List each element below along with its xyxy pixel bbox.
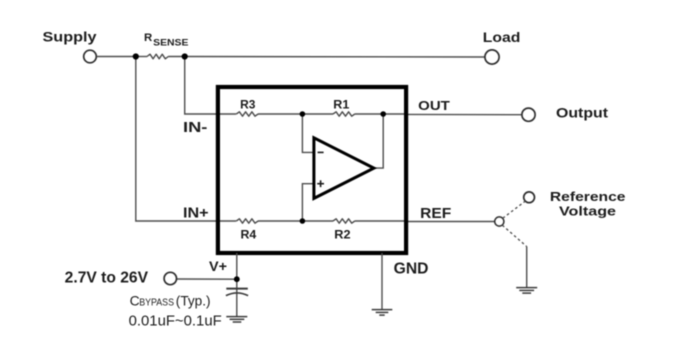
svg-text:BYPASS: BYPASS [139, 297, 174, 308]
junction: output node [380, 111, 386, 117]
svg-text:Supply: Supply [43, 30, 97, 45]
value label CBYPASS (Typ.) [130, 292, 211, 308]
wire: REF pin to switch common [407, 221, 495, 223]
wire: supply node to RSENSE [136, 56, 147, 58]
wire: R2 to REF pin [355, 220, 407, 222]
terminal: Output [522, 108, 535, 121]
wire: dashed switch throw to ground branch [502, 225, 526, 246]
label "Reference Voltage" [550, 189, 626, 218]
svg-text:R3: R3 [240, 98, 255, 112]
svg-text:(Typ.): (Typ.) [176, 293, 211, 308]
wire: R3 to inverting node [258, 113, 333, 115]
svg-text:0.01uF~0.1uF: 0.01uF~0.1uF [129, 313, 222, 329]
svg-text:REF: REF [420, 206, 451, 222]
svg-text:IN+: IN+ [183, 206, 209, 222]
op-amp U1 [314, 138, 374, 199]
junction: inverting input node [300, 111, 306, 117]
wire: ground branch vertical [526, 247, 528, 288]
terminal: Reference Voltage [524, 192, 535, 203]
wire: op-amp output up to output node [374, 114, 383, 168]
terminal: 2.7V to 26V supply [164, 272, 176, 284]
capacitor CBYPASS curved plate [226, 293, 248, 296]
junction: bypass node [234, 276, 240, 282]
svg-text:SENSE: SENSE [153, 37, 188, 47]
svg-text:R1: R1 [333, 98, 349, 112]
svg-text:R: R [144, 32, 152, 44]
wire: sense node to Load terminal [185, 56, 486, 59]
terminal: Supply input [84, 50, 97, 63]
resistor R4 [236, 219, 258, 223]
ground: GND pin ground [372, 310, 393, 316]
svg-text:V+: V+ [209, 259, 227, 275]
wire: dashed switch throw to Reference Voltage terminal [503, 201, 525, 218]
wire: GND pin to ground [381, 253, 383, 309]
svg-text:C: C [130, 292, 140, 308]
resistor R2 [333, 219, 355, 223]
value label RSENSE [144, 32, 188, 48]
svg-text:IN-: IN- [183, 120, 207, 136]
ground: bypass capacitor ground [226, 317, 247, 322]
svg-text:R2: R2 [334, 227, 350, 241]
wire: non-inverting node to op-amp plus input [302, 184, 314, 221]
ground: reference select ground [516, 288, 537, 294]
wire: sense node down to IN- [185, 57, 237, 115]
wire: bypass node through capacitor to ground [236, 279, 238, 316]
resistor R3 [236, 112, 258, 116]
wire: RSENSE to sense node [168, 56, 185, 58]
svg-text:2.7V to 26V: 2.7V to 26V [65, 270, 149, 287]
op-amp plus sign [317, 180, 324, 187]
svg-text:GND: GND [394, 260, 429, 277]
capacitor CBYPASS top plate [226, 288, 248, 290]
wire: supply voltage terminal to bypass node [177, 278, 237, 280]
terminal: Load [485, 50, 499, 64]
wire: R1 to output node [355, 113, 407, 115]
wire: supply node down to IN+ [136, 57, 236, 222]
svg-text:Voltage: Voltage [559, 203, 616, 218]
svg-text:Load: Load [483, 30, 521, 46]
resistor RSENSE [147, 54, 168, 59]
svg-text:OUT: OUT [418, 98, 450, 113]
junction: sense node [182, 53, 188, 59]
junction: supply node [133, 53, 139, 59]
amplifier IC boundary box [218, 87, 406, 253]
svg-text:Output: Output [556, 106, 608, 122]
svg-text:Reference: Reference [550, 189, 626, 204]
junction: non-inverting input node [300, 218, 306, 224]
op-amp minus sign [318, 151, 324, 153]
svg-text:R4: R4 [241, 227, 257, 241]
wire: inverting node to op-amp minus input [302, 114, 314, 152]
wire: Supply terminal to supply node [96, 56, 135, 58]
terminal: switch common (REF select) [495, 217, 504, 226]
resistor R1 [333, 112, 355, 116]
wire: OUT pin to Output terminal [407, 113, 522, 115]
wire: V+ pin down to bypass node [236, 253, 238, 279]
wire: R4 to non-inverting node [258, 220, 333, 222]
